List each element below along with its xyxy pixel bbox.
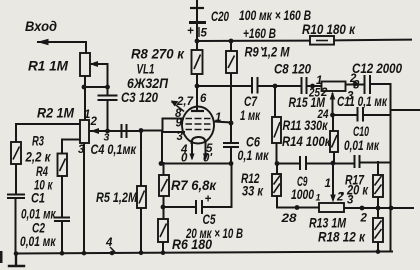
svg-text:0': 0': [203, 153, 213, 165]
svg-text:1000: 1000: [291, 186, 314, 202]
svg-text:+: +: [205, 194, 212, 206]
svg-text:R1 1М: R1 1М: [28, 58, 68, 74]
svg-text:0,1 мк: 0,1 мк: [238, 147, 270, 163]
svg-text:С4 0,1мк: С4 0,1мк: [91, 141, 137, 157]
svg-text:3: 3: [347, 91, 354, 103]
svg-text:R9 1,2 М: R9 1,2 М: [245, 44, 290, 60]
svg-text:0,01 мк: 0,01 мк: [20, 233, 56, 249]
svg-text:R5 1,2М: R5 1,2М: [96, 189, 137, 205]
svg-text:Вход: Вход: [25, 18, 57, 34]
svg-text:R14 100к: R14 100к: [282, 133, 331, 149]
svg-text:1: 1: [316, 193, 321, 203]
svg-text:2: 2: [336, 192, 344, 204]
svg-text:3: 3: [104, 132, 110, 144]
svg-text:2: 2: [320, 87, 328, 99]
svg-text:С20: С20: [211, 8, 229, 24]
svg-text:R7 6,8к: R7 6,8к: [171, 177, 217, 193]
svg-text:R10 180 к: R10 180 к: [302, 21, 356, 37]
svg-text:28: 28: [280, 213, 297, 225]
svg-text:24: 24: [317, 109, 329, 121]
svg-text:25: 25: [308, 88, 320, 100]
svg-text:3: 3: [177, 131, 184, 143]
svg-text:3: 3: [78, 144, 85, 156]
svg-text:1: 1: [325, 178, 331, 190]
svg-text:С8 120: С8 120: [274, 61, 311, 77]
svg-text:R8 270 к: R8 270 к: [131, 46, 185, 62]
svg-text:0,01 мк: 0,01 мк: [344, 137, 380, 153]
svg-text:4: 4: [105, 237, 113, 249]
svg-text:33 к: 33 к: [242, 183, 264, 199]
svg-text:С3 120: С3 120: [121, 89, 158, 105]
svg-text:9: 9: [176, 118, 183, 130]
svg-text:С11 0,1 мк: С11 0,1 мк: [337, 93, 388, 109]
svg-text:2,7: 2,7: [176, 96, 194, 108]
svg-text:+: +: [187, 26, 194, 38]
svg-text:100 мк × 160 В: 100 мк × 160 В: [239, 7, 311, 23]
svg-text:3: 3: [353, 80, 360, 92]
svg-text:R2 1М: R2 1М: [37, 105, 74, 121]
svg-text:6: 6: [200, 93, 207, 105]
svg-text:1: 1: [84, 109, 90, 121]
svg-text:0: 0: [181, 153, 188, 165]
svg-text:R18 12 к: R18 12 к: [318, 229, 366, 245]
svg-text:R3: R3: [32, 133, 44, 149]
svg-text:С1: С1: [31, 190, 45, 206]
svg-text:1 мк: 1 мк: [240, 107, 261, 123]
svg-text:1: 1: [215, 112, 221, 124]
svg-text:+160 В: +160 В: [243, 25, 276, 41]
svg-text:С12 2000: С12 2000: [352, 60, 402, 76]
svg-text:2: 2: [360, 213, 368, 225]
svg-text:R6 180: R6 180: [172, 236, 212, 252]
svg-text:2: 2: [90, 116, 98, 128]
svg-text:3: 3: [347, 195, 354, 207]
svg-text:1: 1: [316, 75, 322, 87]
svg-text:5: 5: [201, 28, 208, 40]
